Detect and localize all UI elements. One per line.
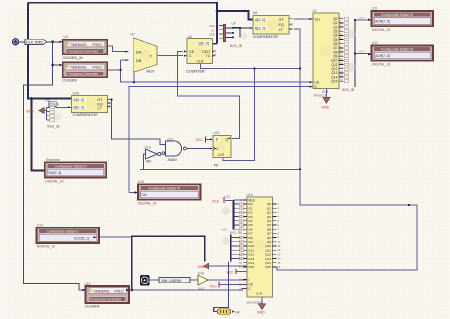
wire: port to CLK_BRD label and to frequency generator U3 (19, 41, 62, 43)
svg-text:U8: U8 (253, 11, 257, 15)
svg-text:Q15: Q15 (331, 80, 337, 84)
wire: generator U16 output long line to register C (131, 289, 246, 290)
svg-text:VCC: VCC (196, 138, 204, 142)
bus joiner U17 at register D inputs lower (222, 228, 244, 262)
svg-text:TIMEBASE: TIMEBASE (70, 66, 87, 70)
svg-text:GND: GND (257, 310, 265, 314)
svg-text:BUS_JB: BUS_JB (230, 44, 242, 48)
svg-text:PD: PD (214, 164, 219, 168)
svg-text:U21: U21 (45, 99, 51, 103)
wire: buffer output to register I input (209, 279, 247, 281)
wire: VCC to flip-flop U30 D (206, 138, 213, 140)
svg-text:U1: U1 (313, 9, 317, 13)
configurable digital IO U12 (368, 41, 433, 67)
wire: inverter input stub from CLR net (144, 154, 146, 169)
wire: comparator U8 GT output to SR16 SLI (294, 18, 313, 20)
svg-text:VCC: VCC (212, 199, 220, 203)
speaker icon (140, 275, 150, 285)
svg-text:DIGITAL_IO: DIGITAL_IO (37, 245, 56, 249)
SR16 output bus joiner boxes (342, 17, 356, 92)
wire: CLK_BRD vertical feed to U6 and down-left to bottom generator U16 (24, 42, 85, 290)
multiplexer U7 MUX (125, 33, 157, 74)
flip-flop U30 (210, 131, 232, 168)
wire: VCC to register CE (219, 283, 247, 285)
svg-text:SLI: SLI (315, 17, 320, 21)
svg-text:U26: U26 (73, 91, 79, 95)
svg-text:VCC: VCC (210, 284, 218, 288)
bus joiner U21 with ground (26, 99, 62, 129)
svg-text:U15: U15 (225, 195, 231, 199)
wire: bus tap to digital IO U12 (355, 53, 371, 55)
svg-text:I: I (249, 278, 250, 282)
bus joiner U9 (209, 21, 247, 48)
node 2x net label on U26 A wire (49, 102, 58, 107)
svg-text:BUS_JB: BUS_JB (342, 88, 354, 92)
wire: counter Q bus stub to joiner U9 (213, 43, 218, 45)
configurable digital IO U19 (135, 180, 201, 205)
wire: LT net down and loop to register Q15 (273, 169, 418, 270)
svg-text:CLR: CLR (197, 60, 204, 64)
SR16 Q pin stubs (339, 19, 344, 81)
svg-text:FREQ: FREQ (93, 43, 103, 47)
svg-text:U3: U3 (64, 35, 68, 39)
svg-text:BUF: BUF (199, 287, 205, 291)
configurable digital IO U14 (37, 224, 100, 249)
svg-text:Configurable Digital IO: Configurable Digital IO (148, 186, 181, 190)
svg-text:FREQ: FREQ (115, 289, 125, 293)
svg-text:Frequency Generator: Frequency Generator (68, 49, 99, 53)
svg-text:U17: U17 (222, 228, 228, 232)
comparator U8 (250, 11, 293, 39)
svg-text:COMPARATOR: COMPARATOR (253, 35, 279, 39)
comparator U26 (68, 91, 111, 117)
svg-text:BUS_JB: BUS_JB (230, 231, 241, 235)
svg-text:CLK_BRD: CLK_BRD (26, 41, 43, 45)
power VCC at register MLE (212, 197, 224, 203)
register U1A D input pin names (249, 202, 255, 269)
wire: long CE line to shift register SR16 CE (121, 60, 313, 82)
wire: bus branch down to Timepiece digital IO input (32, 99, 45, 171)
AND gate U33 (161, 137, 187, 162)
svg-text:CLR: CLR (256, 292, 263, 296)
counter U5 (184, 35, 216, 74)
register U1A Q output pin names (265, 202, 271, 269)
node CLK_BRD net label (25, 39, 47, 44)
svg-text:CEO: CEO (202, 50, 210, 54)
configurable digital IO U11 (368, 7, 433, 33)
svg-text:GND: GND (26, 109, 34, 113)
svg-text:A[3..0]: A[3..0] (74, 98, 84, 102)
wire: MUX select stub to CE line (133, 73, 135, 82)
svg-text:GND: GND (322, 106, 330, 110)
wire: comparator U26 GT to AND gate input (108, 100, 166, 145)
svg-text:BUS_JB: BUS_JB (48, 124, 60, 128)
svg-text:Clk: Clk (142, 193, 147, 197)
bus joiner U15 at register D inputs (222, 195, 243, 231)
svg-text:ADR[7..0]: ADR[7..0] (375, 20, 390, 24)
register U1A right pin numbers (278, 202, 281, 269)
svg-text:SOC[8..1]: SOC[8..1] (74, 236, 89, 240)
power GND feeding register data (198, 263, 216, 269)
frequency generator U3 (60, 35, 108, 60)
wire: AND gate output to flip-flop U30 C (187, 148, 212, 150)
svg-text:U18: U18 (198, 272, 204, 276)
power VCC at register left lower (227, 269, 247, 275)
svg-text:C: C (189, 54, 192, 58)
svg-text:SW[7..0]: SW[7..0] (48, 171, 61, 175)
wire: speaker to SW_USER0 label to buffer (150, 279, 199, 281)
svg-text:U4: U4 (235, 310, 239, 314)
svg-text:D: D (216, 138, 219, 142)
svg-text:EQ: EQ (279, 23, 284, 27)
register U1A body (247, 193, 273, 297)
svg-text:TIMEBASE: TIMEBASE (93, 289, 110, 293)
svg-text:CLKGEN_2x: CLKGEN_2x (63, 56, 83, 60)
buffer U18 (198, 272, 208, 291)
svg-text:A[3..0]: A[3..0] (255, 18, 265, 22)
svg-text:Frequency Generator: Frequency Generator (68, 72, 99, 76)
svg-text:CLKGEN: CLKGEN (85, 304, 100, 308)
svg-text:COUNTER: COUNTER (186, 70, 205, 74)
svg-text:B[3..0]: B[3..0] (255, 26, 265, 30)
svg-text:Q15: Q15 (265, 265, 271, 269)
wire: U26 B input from bus joiner (56, 106, 72, 108)
wire: digital IO U14 output joining bus (99, 236, 132, 238)
svg-text:FREQ: FREQ (93, 66, 103, 70)
wire: bus drop to clock component U4 (214, 262, 229, 312)
register U1A left pin stubs (243, 200, 247, 289)
SR16 Q output pin names (331, 17, 337, 84)
svg-text:C: C (216, 147, 219, 151)
frequency generator U16 (83, 282, 130, 308)
wire: comparator U8 LT to counter CLR net (140, 29, 300, 169)
frequency generator U6 (60, 62, 108, 82)
wire: SR16 output bus rail (354, 20, 356, 87)
wire: bottom generator bus up and over to ground drop (132, 236, 205, 290)
wire: top bus from left rail to counter Q output (28, 3, 217, 44)
ground below register U1A (247, 298, 267, 315)
svg-text:CLKGEN: CLKGEN (63, 79, 78, 83)
svg-text:INV: INV (146, 160, 152, 164)
svg-text:CLR: CLR (218, 153, 225, 157)
svg-text:U12: U12 (372, 41, 378, 45)
svg-text:SW_USER0: SW_USER0 (162, 279, 182, 283)
inverter U13 (145, 146, 161, 164)
svg-text:U11: U11 (372, 7, 378, 11)
clock component U4 (217, 309, 239, 315)
svg-text:GT: GT (279, 18, 285, 22)
svg-text:VCC: VCC (227, 270, 234, 274)
wire: bus tap from top bus to comparator U8 A input (217, 11, 253, 20)
wire: U3 output to MUX DA (107, 46, 128, 52)
wire: bus tap to digital IO U11 (355, 19, 371, 21)
svg-text:ADR[7..0]: ADR[7..0] (375, 54, 390, 58)
svg-text:Frequency Generator: Frequency Generator (91, 297, 122, 301)
svg-text:Configurable Digital IO: Configurable Digital IO (381, 48, 414, 52)
register U1A right pin stubs (273, 204, 277, 267)
svg-text:GND: GND (209, 33, 215, 37)
shift register U1 SR16 (310, 9, 340, 94)
svg-text:CE: CE (189, 50, 195, 54)
svg-text:DIGITAL_IO: DIGITAL_IO (138, 201, 157, 205)
wire: flip-flop U30 Q up and over to counter CE (178, 51, 240, 138)
wire: joiner U9 merge to comparator U8 B input (233, 28, 253, 38)
svg-text:MUX: MUX (147, 69, 155, 73)
svg-text:OUT: OUT (359, 16, 365, 20)
svg-text:TIMEBASE: TIMEBASE (70, 43, 87, 47)
svg-text:CE: CE (315, 81, 321, 85)
port CLK input bullet (12, 38, 19, 45)
svg-text:ANDN: ANDN (168, 158, 178, 162)
SR16 right pin numbers (340, 16, 343, 82)
svg-text:DIGITAL_IO: DIGITAL_IO (372, 28, 391, 32)
svg-text:U30: U30 (214, 131, 220, 135)
svg-text:OUT: OUT (359, 50, 365, 54)
configurable digital IO Timepiece (41, 158, 106, 183)
wire: CLR branch down to flip-flop U30 CLR (223, 69, 255, 161)
node SW_USER0 net label (159, 277, 190, 282)
svg-text:DIGITAL_IO: DIGITAL_IO (372, 63, 391, 67)
wire: long C line to shift register SR16 C and branch to digital IO U19 (129, 87, 313, 193)
wire: ground feed to register data pin (215, 265, 247, 267)
svg-text:Configurable Digital IO: Configurable Digital IO (47, 230, 80, 234)
svg-text:Q[3..0]: Q[3..0] (198, 42, 209, 46)
register U1A left pin numbers (239, 198, 242, 291)
svg-text:Configurable Digital IO: Configurable Digital IO (381, 13, 414, 17)
svg-text:D15: D15 (249, 265, 255, 269)
svg-text:CE: CE (249, 283, 253, 287)
wire: left bus rail down to comparator U26 A input (27, 3, 71, 99)
svg-text:U1A: U1A (247, 193, 254, 197)
svg-text:DA: DA (136, 49, 142, 54)
svg-text:DIGITAL_IO: DIGITAL_IO (45, 179, 64, 183)
ground below SR16 (314, 89, 331, 110)
svg-text:GT: GT (97, 98, 103, 102)
wire: MUX Y output to counter C input (157, 55, 183, 57)
svg-text:TC: TC (206, 54, 211, 58)
svg-text:B[3..0]: B[3..0] (74, 105, 84, 109)
svg-text:DB: DB (136, 58, 142, 63)
svg-text:Y: Y (150, 53, 153, 58)
power VCC at buffer output (210, 281, 220, 288)
svg-text:COMPARATOR: COMPARATOR (73, 113, 99, 117)
svg-text:U7: U7 (131, 33, 135, 37)
svg-text:Configurable Digital IO: Configurable Digital IO (55, 164, 88, 168)
svg-text:Q: Q (225, 138, 228, 142)
wire: U6 output to MUX DB (107, 60, 128, 70)
wire: VCC to register MLE row (225, 199, 243, 202)
svg-text:U9: U9 (232, 21, 236, 25)
power VCC at U30 D (196, 136, 206, 142)
svg-text:Timepiece: Timepiece (46, 158, 61, 162)
